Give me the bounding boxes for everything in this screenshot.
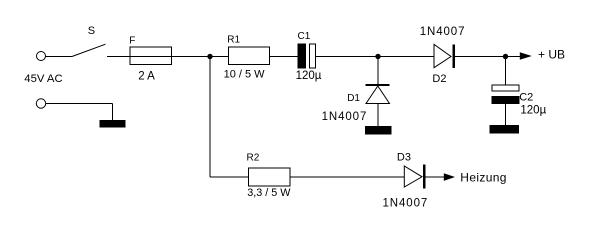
terminal upper 45V AC [37, 52, 46, 61]
switch S blade [72, 44, 106, 56]
svg-text:120µ: 120µ [296, 70, 322, 82]
svg-text:F: F [129, 36, 135, 47]
diode D1 cathode bar [366, 84, 390, 86]
terminal lower 45V AC [36, 99, 45, 108]
wire node to C2 [505, 57, 507, 86]
wire node to D1 [377, 57, 379, 86]
diode D2 cathode bar [452, 44, 455, 68]
wire D2 to UB arrow [454, 56, 521, 58]
svg-text:3,3 / 5 W: 3,3 / 5 W [247, 187, 291, 199]
svg-text:Heizung: Heizung [460, 170, 506, 184]
arrow Heizung [444, 173, 455, 181]
wire down to ground [112, 104, 114, 121]
ground below C2 [490, 126, 519, 134]
svg-text:1N4007: 1N4007 [383, 197, 429, 209]
wire R1 to C1 [270, 56, 299, 58]
wire node to lower branch [209, 57, 211, 178]
diode D1 triangle [366, 86, 390, 104]
svg-text:45V AC: 45V AC [24, 73, 62, 85]
capacitor C2 plate filled [492, 97, 519, 104]
resistor R1 body [229, 47, 270, 65]
wire R2 to D3 [290, 176, 404, 178]
wire lower terminal [46, 103, 113, 105]
junction node C2 [503, 54, 508, 59]
svg-text:D1: D1 [347, 93, 360, 104]
wire D1 to ground [377, 104, 379, 127]
capacitor C2 plate hollow [492, 85, 519, 91]
svg-text:120µ: 120µ [520, 105, 546, 117]
svg-text:10 / 5 W: 10 / 5 W [224, 69, 266, 81]
capacitor C1 plate + (filled) [298, 44, 305, 68]
diode D3 triangle [404, 166, 422, 187]
svg-text:1N4007: 1N4007 [420, 26, 466, 38]
svg-text:2 A: 2 A [138, 70, 155, 82]
wire C2 to ground [505, 104, 507, 126]
junction node D1 [375, 54, 380, 59]
wire terminal to switch [46, 56, 73, 58]
svg-text:C2: C2 [519, 91, 533, 103]
wire C1 to D2 [316, 56, 435, 58]
diode D2 triangle [434, 44, 451, 67]
svg-text:C1: C1 [298, 31, 311, 42]
wire lower branch to R2 [210, 176, 249, 178]
capacitor C1 plate - (hollow) [310, 44, 316, 68]
svg-text:+ UB: + UB [538, 47, 565, 61]
ground lower terminal [100, 121, 125, 128]
svg-text:D3: D3 [397, 152, 411, 164]
svg-text:R2: R2 [247, 153, 260, 164]
svg-text:1N4007: 1N4007 [322, 111, 368, 123]
svg-text:S: S [88, 25, 95, 37]
fuse F body [130, 47, 172, 65]
diode D3 cathode bar [423, 165, 426, 189]
junction node fuse/R1 [207, 54, 212, 59]
svg-text:D2: D2 [432, 73, 446, 85]
wire switch to R1 through fuse [107, 56, 229, 58]
resistor R2 body [249, 168, 291, 186]
arrow + UB [520, 52, 532, 60]
ground below D1 [366, 127, 392, 135]
wire D3 to Heizung arrow [425, 176, 444, 178]
svg-text:R1: R1 [227, 34, 240, 45]
